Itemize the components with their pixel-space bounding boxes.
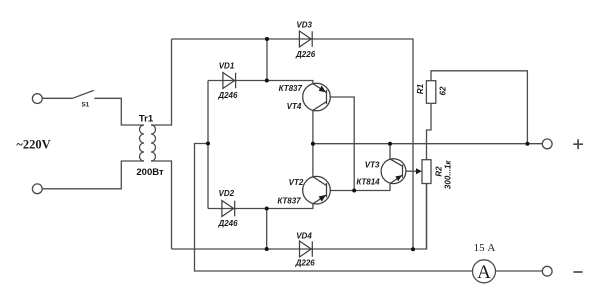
svg-text:R2: R2 bbox=[435, 166, 444, 177]
svg-text:А: А bbox=[477, 262, 491, 283]
svg-text:Д226: Д226 bbox=[295, 259, 316, 268]
svg-text:Tr1: Tr1 bbox=[139, 114, 154, 125]
svg-text:Д246: Д246 bbox=[217, 91, 238, 100]
svg-text:КТ837: КТ837 bbox=[277, 197, 301, 206]
svg-text:КТ837: КТ837 bbox=[279, 84, 303, 93]
svg-text:VD1: VD1 bbox=[219, 62, 235, 71]
svg-text:VT2: VT2 bbox=[289, 178, 304, 187]
svg-text:~220V: ~220V bbox=[16, 138, 50, 152]
svg-text:Д246: Д246 bbox=[217, 219, 238, 228]
svg-text:VT3: VT3 bbox=[365, 161, 380, 170]
svg-text:VD3: VD3 bbox=[296, 21, 312, 30]
svg-text:300...1к: 300...1к bbox=[444, 160, 453, 189]
svg-text:200Вт: 200Вт bbox=[136, 167, 164, 178]
svg-text:15 А: 15 А bbox=[474, 242, 496, 254]
svg-text:62: 62 bbox=[439, 86, 448, 95]
svg-text:VD2: VD2 bbox=[219, 189, 235, 198]
svg-text:R1: R1 bbox=[416, 83, 425, 94]
svg-text:Д226: Д226 bbox=[295, 50, 316, 59]
svg-text:VT4: VT4 bbox=[287, 102, 302, 111]
svg-text:КТ814: КТ814 bbox=[356, 178, 380, 187]
svg-text:VD4: VD4 bbox=[296, 231, 312, 240]
svg-text:S1: S1 bbox=[81, 102, 89, 109]
